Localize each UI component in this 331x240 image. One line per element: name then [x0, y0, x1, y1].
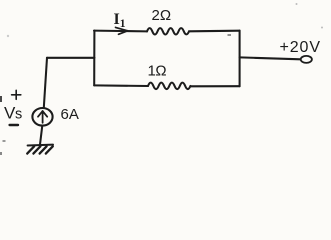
resistor R2 1ohm zigzag	[148, 83, 190, 90]
wire: left vertical of parallel pair	[93, 31, 95, 86]
wire: bottom branch left segment	[94, 84, 148, 87]
wire: source top vertical	[44, 58, 47, 108]
ground symbol	[27, 145, 53, 154]
current source U1 circle	[32, 108, 52, 126]
wire: right vertical bus	[239, 31, 241, 86]
wire: output lead to terminal	[240, 57, 301, 59]
svg-text:1Ω: 1Ω	[148, 62, 167, 79]
resistor R1 2ohm zigzag	[147, 28, 189, 34]
current arrow I1 on top wire	[116, 27, 128, 34]
wire: top branch right segment	[189, 30, 240, 33]
scan noise specks	[0, 3, 323, 155]
terminal node circle (+20V)	[301, 56, 312, 63]
wire: bottom branch right segment	[191, 85, 240, 87]
wire: source to node horizontal	[47, 57, 94, 59]
wire: top branch left segment with node at (94,31)	[94, 30, 147, 33]
svg-text:Vs: Vs	[4, 104, 22, 123]
paper background	[0, 0, 331, 160]
svg-text:+20V: +20V	[280, 39, 321, 56]
svg-text:2Ω: 2Ω	[152, 7, 172, 24]
current source arrow (up)	[38, 111, 47, 123]
svg-text:6A: 6A	[61, 106, 79, 123]
plus sign of source polarity	[12, 90, 21, 99]
minus sign of source polarity	[10, 124, 18, 126]
wire: source bottom vertical to ground	[40, 126, 42, 145]
